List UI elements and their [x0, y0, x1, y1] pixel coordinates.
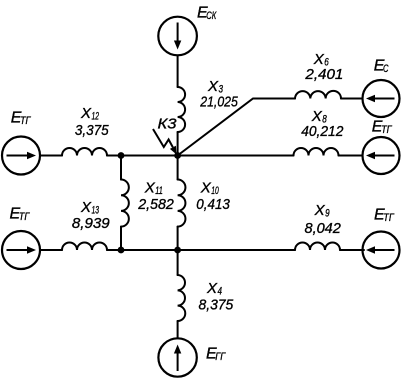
wire node K3 to X10 [177, 156, 179, 180]
svg-text:ГГ: ГГ [215, 351, 226, 363]
wire top bus right segment [339, 155, 363, 157]
label X8 [311, 108, 328, 126]
wire node A to X11 [120, 156, 122, 180]
arrow of source E_GG [174, 345, 181, 372]
svg-text:21,025: 21,025 [199, 93, 238, 110]
label X12 [80, 105, 99, 123]
inductor X11 coil [121, 180, 129, 227]
inductor X9 coil [295, 243, 340, 250]
label X3 [207, 78, 224, 96]
svg-text:2,582: 2,582 [137, 196, 174, 213]
svg-text:К3: К3 [158, 115, 178, 132]
label X4 [206, 280, 222, 298]
label X11 [144, 180, 163, 198]
svg-text:9: 9 [325, 208, 330, 220]
svg-text:Х: Х [80, 105, 92, 122]
arrow of source E_C [366, 95, 395, 102]
wire X10 to bottom bus [177, 227, 179, 250]
node junction dot top-left [118, 152, 125, 159]
inductor X8 coil [294, 148, 339, 156]
label E_TG bottom-left [10, 205, 31, 223]
source E_GG circle [158, 338, 196, 376]
inductor X4 coil [178, 275, 186, 321]
label X10 [200, 180, 220, 198]
wire from source E_CK down [177, 55, 179, 87]
svg-text:СК: СК [206, 10, 216, 22]
svg-text:8,939: 8,939 [72, 215, 110, 232]
svg-text:3,375: 3,375 [75, 122, 109, 139]
svg-text:0,413: 0,413 [196, 196, 230, 213]
wire top bus left segment [40, 155, 62, 157]
svg-text:ТГ: ТГ [20, 115, 31, 127]
inductor X3 coil [178, 87, 186, 132]
short-circuit marker K3 lightning arrow [153, 129, 177, 155]
source E_TG top-left circle [2, 137, 40, 175]
source E_TG bottom-left circle [2, 231, 40, 269]
svg-text:2,401: 2,401 [304, 66, 343, 83]
inductor X6 coil [295, 91, 341, 99]
wire diagonal node K3 to X6 branch [178, 99, 295, 156]
wire X11 to bottom bus [120, 227, 122, 250]
label X6 [313, 51, 330, 69]
svg-text:ТГ: ТГ [381, 124, 392, 136]
wire bottom bus to X4 [177, 250, 179, 275]
source E_CK circle [158, 17, 197, 56]
label X13 [80, 199, 100, 217]
label E_CK [197, 4, 217, 22]
node junction dot K3 [174, 152, 181, 159]
svg-text:8,042: 8,042 [305, 220, 342, 237]
svg-text:Х: Х [200, 180, 212, 197]
svg-text:ТГ: ТГ [383, 212, 394, 224]
svg-text:Х: Х [144, 180, 156, 197]
label E_TG top-left [11, 109, 32, 127]
source E_TG bottom-right circle [363, 232, 400, 269]
wire X3 to node K3 [177, 132, 179, 156]
svg-text:Х: Х [80, 199, 92, 216]
label E_GG [206, 346, 226, 364]
wire X6 to source E_C [341, 98, 363, 100]
arrow of source E_TG bottom-left [7, 246, 37, 253]
svg-text:8,375: 8,375 [199, 296, 234, 313]
node junction dot bottom-middle [174, 247, 181, 254]
wire bottom bus right segment [340, 249, 364, 251]
source E_TG right-middle circle [363, 137, 400, 174]
source E_C circle [363, 80, 400, 117]
arrow of source E_TG top-left [7, 152, 37, 159]
svg-text:12: 12 [92, 111, 100, 123]
wire X4 to source E_GG [177, 321, 179, 338]
svg-text:Х: Х [314, 202, 326, 219]
label E_TG bottom-right [374, 207, 395, 225]
arrow of source E_TG bottom-right [366, 246, 395, 253]
arrow of source E_TG right-middle [366, 152, 395, 159]
inductor X13 coil [62, 243, 107, 250]
label E_C [374, 58, 389, 76]
label X9 [314, 202, 330, 220]
wire top bus middle segment [107, 155, 294, 157]
arrow of source E_CK [174, 23, 181, 50]
svg-text:Х: Х [206, 280, 218, 297]
wire bottom bus middle segment [107, 249, 295, 251]
inductor X10 coil [178, 180, 186, 227]
inductor X12 coil [62, 148, 107, 156]
node junction dot bottom-left [118, 247, 125, 254]
label E_TG right-middle [372, 119, 393, 137]
wire bottom bus left segment [40, 249, 62, 251]
svg-text:40,212: 40,212 [301, 123, 344, 140]
svg-text:С: С [383, 63, 389, 75]
svg-text:ТГ: ТГ [19, 211, 30, 223]
